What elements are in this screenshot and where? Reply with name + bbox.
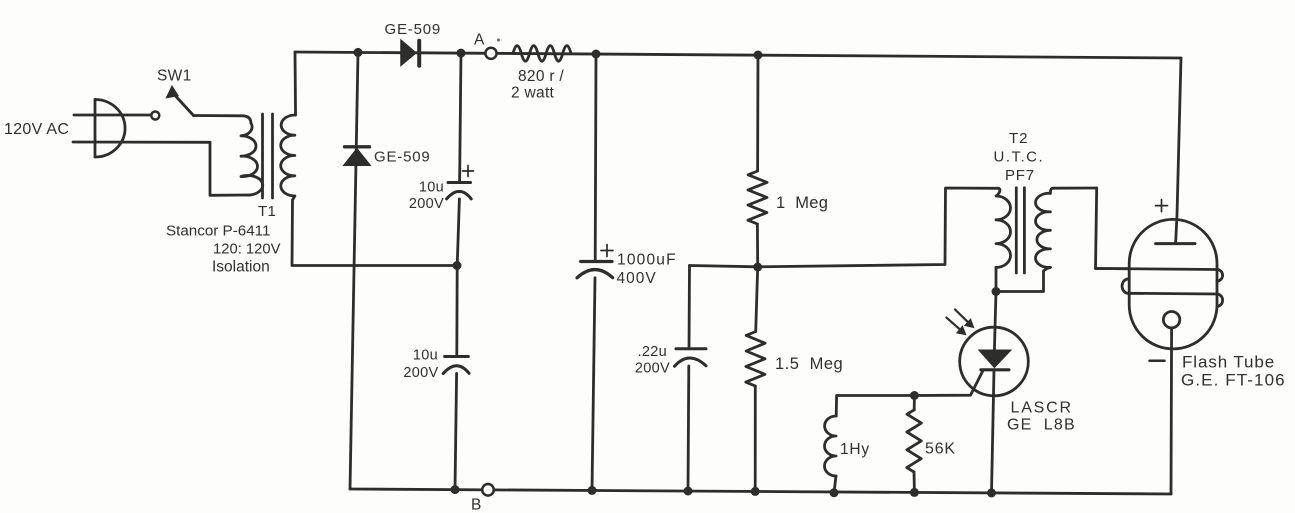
wire gate bus to R3 — [913, 396, 916, 410]
plus sign at flash tube anode — [1156, 200, 1168, 212]
resistor 820 ohm 2 watt — [513, 46, 571, 62]
label Flash Tube — [1182, 353, 1275, 372]
svg-text:400V: 400V — [617, 270, 657, 287]
flash tube trigger loop right lower — [1217, 294, 1223, 306]
wire mid junction to R2 — [756, 267, 758, 332]
junction dot T2 common / LASCR anode — [992, 287, 1001, 296]
svg-text:LASCR: LASCR — [1011, 400, 1073, 417]
LASCR Q1 gate wire — [914, 371, 983, 396]
svg-text:10u: 10u — [419, 180, 444, 196]
label GE L8B — [1007, 417, 1076, 434]
wire T1 secondary bottom to filter junction — [292, 196, 457, 266]
wire T2 secondary top lead — [1050, 188, 1096, 193]
transformer T1 core — [263, 114, 273, 198]
svg-text:GE-509: GE-509 — [385, 21, 442, 38]
wire top rail to R1 — [756, 55, 759, 171]
LASCR Q1 envelope circle — [960, 327, 1029, 396]
svg-text:A: A — [474, 32, 485, 49]
wire T2 common to LASCR anode — [994, 292, 996, 351]
svg-text:SW1: SW1 — [157, 68, 192, 85]
wire 1Hy to bottom rail — [834, 476, 836, 493]
label 1.5 Meg — [775, 355, 843, 373]
svg-text:1.5 Meg: 1.5 Meg — [775, 355, 843, 373]
label 200V (C2) — [403, 365, 438, 381]
capacitor C2 10u 200V plates — [443, 357, 469, 374]
label U.T.C. — [994, 149, 1045, 166]
svg-text:56K: 56K — [925, 441, 956, 458]
svg-text:Flash Tube: Flash Tube — [1182, 353, 1275, 372]
junction dot bottom rail / 1Hy — [830, 488, 839, 497]
svg-text:120V AC: 120V AC — [4, 121, 69, 138]
AC plug 120V AC — [73, 100, 210, 158]
label B — [471, 497, 482, 513]
node B terminal circle — [482, 484, 494, 496]
junction dot bottom rail / LASCR cathode — [987, 488, 996, 497]
wire C1 to center junction — [457, 199, 459, 266]
wire R1 to mid junction — [756, 224, 759, 267]
svg-text:GE L8B: GE L8B — [1007, 417, 1076, 434]
label Isolation — [212, 259, 270, 276]
junction dot center tap — [453, 261, 462, 270]
light arrow 2 into LASCR — [955, 310, 975, 329]
svg-text:T1: T1 — [258, 203, 276, 220]
svg-text:1000uF: 1000uF — [617, 252, 677, 269]
svg-text:10u: 10u — [413, 348, 438, 364]
flash tube trigger band lower — [1129, 292, 1217, 296]
wire R3 to bottom rail — [913, 472, 916, 492]
label 400V — [617, 270, 657, 287]
svg-text:T2: T2 — [1009, 130, 1029, 147]
wire switch arm to T1 primary top — [194, 116, 251, 124]
wire T2 secondary top to flash tube trigger — [1096, 188, 1130, 269]
svg-text:820 r /: 820 r / — [518, 68, 564, 85]
label 820 r / — [518, 68, 564, 85]
label 1Hy — [840, 441, 870, 458]
label 10u (C1) — [419, 180, 444, 196]
wire top positive rail — [295, 52, 1181, 58]
flash tube anode bar — [1156, 242, 1195, 245]
capacitor C1 10u 200V plates — [447, 183, 472, 199]
resistor R1 1 Meg — [748, 171, 767, 224]
label 200V (C4) — [635, 361, 670, 377]
wire top rail to flash tube anode — [1176, 58, 1181, 244]
svg-text:U.T.C.: U.T.C. — [994, 149, 1045, 166]
label GE-509 (shunt diode) — [374, 149, 431, 166]
flash tube V1 envelope — [1129, 219, 1217, 349]
svg-text:PF7: PF7 — [1005, 167, 1035, 184]
label LASCR — [1011, 400, 1073, 417]
plus sign at C3 — [601, 245, 613, 257]
svg-text:Isolation: Isolation — [212, 259, 270, 276]
transformer T2 core — [1016, 188, 1024, 273]
wire top rail junction to bottom rail (diode branch) — [350, 52, 358, 489]
label 2 watt — [511, 85, 555, 102]
svg-text:G.E. FT-106: G.E. FT-106 — [1181, 371, 1286, 390]
wire gate bus corner to 1Hy — [836, 396, 914, 417]
flash tube cathode terminal circle — [1163, 312, 1179, 328]
node A terminal circle — [485, 48, 496, 59]
diode D1 GE-509 (horizontal, pointing right) — [401, 40, 419, 65]
flash tube trigger band upper — [1096, 269, 1218, 270]
junction dot top rail / diode branch — [354, 48, 363, 57]
label PF7 — [1005, 167, 1035, 184]
label 120V AC — [4, 121, 69, 138]
wire C4 to bottom rail — [687, 366, 691, 491]
label SW1 — [157, 68, 192, 85]
junction dot gate bus / 56K — [910, 391, 919, 400]
wire T1 secondary top to top rail — [294, 52, 297, 115]
label 1000uF — [617, 252, 677, 269]
wire C3 to bottom rail — [592, 278, 595, 491]
transformer T2 primary winding — [996, 188, 1010, 267]
wire R2 to bottom rail — [754, 386, 757, 491]
label Stancor P-6411 — [166, 223, 270, 240]
label T1 — [258, 203, 276, 220]
inductor L1 1Hy winding — [825, 416, 837, 476]
diode D2 GE-509 (vertical, pointing up) — [344, 147, 370, 166]
wire bottom negative rail — [350, 489, 1171, 494]
svg-text:1Hy: 1Hy — [840, 441, 870, 458]
LASCR Q1 cathode bar — [981, 368, 1009, 371]
label GE-509 (series diode) — [385, 21, 442, 38]
switch SW1 open terminal — [151, 112, 159, 120]
plus sign at C1 — [463, 166, 474, 177]
svg-text:1 Meg: 1 Meg — [776, 194, 828, 212]
capacitor C4 .22u 200V plates — [675, 349, 707, 367]
wire T2 secondary bottom to common junction — [996, 267, 1050, 291]
junction dot bottom rail / 1000uF branch — [588, 486, 597, 495]
wire mid bus to T2 primary — [690, 188, 999, 267]
capacitor C3 1000uF 400V plates — [577, 262, 613, 278]
resistor R3 56K — [907, 410, 922, 472]
wire T2 primary bottom to LASCR anode junction — [995, 267, 998, 291]
label T2 — [1009, 130, 1029, 147]
minus sign at flash tube cathode — [1150, 360, 1165, 363]
label 56K — [925, 441, 956, 458]
LASCR Q1 cathode wire to bottom rail — [992, 370, 995, 493]
svg-text:2 watt: 2 watt — [511, 85, 555, 102]
label G.E. FT-106 — [1181, 371, 1286, 390]
label 120: 120V — [213, 242, 281, 258]
wire node A branch down to C1 — [460, 53, 461, 182]
svg-text:200V: 200V — [635, 361, 670, 377]
svg-text:GE-509: GE-509 — [374, 149, 431, 166]
junction dot bottom rail / R2 branch — [751, 487, 760, 496]
flash tube trigger loop left — [1122, 279, 1129, 293]
junction dot bottom rail / 56K — [910, 488, 919, 497]
label .22u — [638, 344, 667, 360]
wire center junction to C2 — [455, 266, 458, 357]
transformer T1 primary winding — [241, 123, 263, 195]
junction dot mid bus / R1-R2 — [753, 263, 762, 272]
wire top rail to C3 — [594, 54, 598, 262]
junction dot top rail / 10u branch — [457, 49, 466, 58]
flash tube cathode wire to bottom rail — [1170, 328, 1173, 494]
wire plug lower prong to T1 primary bottom — [210, 142, 246, 195]
transformer T2 secondary winding — [1036, 193, 1051, 267]
svg-text:120: 120V: 120: 120V — [213, 242, 281, 258]
svg-text:200V: 200V — [403, 365, 438, 381]
svg-text:.22u: .22u — [638, 344, 667, 360]
wire mid bus down to C4 — [688, 266, 691, 349]
wire C2 to bottom rail — [455, 373, 457, 489]
junction dot bottom rail / .22u branch — [684, 487, 693, 496]
svg-text:Stancor P-6411: Stancor P-6411 — [166, 223, 270, 240]
label 10u (C2) — [413, 348, 438, 364]
junction dot top rail / 1000uF branch — [592, 50, 601, 59]
light arrow 1 into LASCR — [946, 318, 966, 336]
junction dot top rail / 1 Meg branch — [754, 51, 763, 60]
label 200V (C1) — [409, 196, 444, 212]
transformer T1 secondary winding — [281, 115, 296, 196]
switch SW1 arm with arrowhead — [166, 86, 193, 116]
svg-text:200V: 200V — [409, 196, 444, 212]
svg-text:B: B — [471, 497, 482, 513]
label 1 Meg — [776, 194, 828, 212]
LASCR Q1 thyristor triangle — [979, 350, 1010, 367]
flash tube trigger loop right upper — [1217, 270, 1223, 282]
junction dot bottom rail / 10u branch — [451, 485, 460, 494]
resistor R2 1.5 Meg — [746, 332, 765, 387]
label A — [474, 32, 500, 49]
